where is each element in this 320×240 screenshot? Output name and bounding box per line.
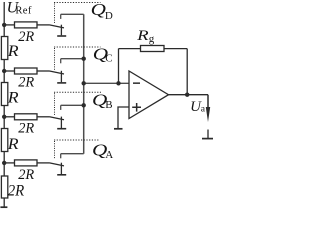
svg-text:C: C — [105, 53, 112, 65]
dashed box QD left — [54, 4, 56, 25]
node dot rail D — [2, 23, 6, 27]
wire 2R to switch QB pole — [37, 116, 50, 118]
wire node D to 2R — [4, 24, 14, 26]
svg-text:R: R — [136, 28, 149, 44]
dashed box QB top — [54, 91, 101, 93]
wire 2R to switch QA pole — [37, 162, 50, 164]
wire QD upper contact to bus — [61, 13, 84, 15]
svg-text:A: A — [105, 149, 113, 161]
dashed box QA top — [54, 139, 99, 141]
node dot bus to op-amp — [82, 81, 86, 85]
op-amp minus sign — [133, 82, 140, 84]
wire feedback top left — [119, 48, 141, 50]
svg-text:2R: 2R — [18, 121, 34, 137]
wire QA upper contact to bus — [61, 153, 84, 155]
op-amp plus sign — [132, 107, 141, 109]
wire node C to 2R — [4, 70, 14, 72]
dashed box QC top — [54, 46, 101, 48]
resistor R (middle, between node C and node B) — [1, 83, 7, 106]
wire bus to op-amp inverting input — [84, 82, 129, 84]
svg-text:R: R — [7, 89, 20, 106]
dashed box QC left — [54, 48, 56, 70]
switch QD lever — [50, 25, 65, 28]
svg-text:a: a — [201, 104, 206, 115]
wire left rail — [3, 2, 5, 207]
svg-text:2R: 2R — [18, 74, 34, 90]
svg-text:R: R — [7, 43, 20, 60]
wire node A to 2R — [4, 162, 14, 164]
arrow Ua (output voltage arrow) — [207, 95, 209, 110]
op-amp triangle — [129, 71, 169, 119]
wire 2R to switch QD pole — [37, 24, 50, 26]
wire QC upper contact to bus — [61, 58, 84, 60]
wire node B to 2R — [4, 116, 14, 118]
node dot bus QB — [82, 103, 86, 107]
resistor 2R (row B horizontal) — [15, 114, 38, 120]
resistor 2R (row A horizontal) — [15, 160, 38, 166]
svg-text:2R: 2R — [18, 29, 34, 45]
node dot rail B — [2, 115, 6, 119]
wire ground stub below Ua arrow — [207, 130, 209, 139]
wire op-amp noninverting corner — [118, 107, 129, 128]
resistor R (lower, between node B and node A) — [1, 129, 7, 152]
node dot bus QC — [82, 57, 86, 61]
switch QA lower contact — [60, 163, 62, 174]
switch QD lower contact — [60, 25, 62, 36]
switch QB upper contact stub — [60, 105, 62, 110]
svg-text:B: B — [105, 99, 112, 111]
svg-text:2R: 2R — [8, 183, 25, 200]
svg-text:g: g — [149, 33, 155, 45]
node dot feedback left — [116, 81, 120, 85]
wire feedback left vertical — [118, 49, 120, 84]
dashed box QD top — [54, 2, 101, 4]
switch QC lower contact — [60, 71, 62, 82]
node dot rail A — [2, 161, 6, 165]
svg-text:Ref: Ref — [15, 5, 31, 16]
wire feedback right vertical — [186, 49, 188, 95]
switch QD upper contact stub — [60, 14, 62, 19]
wire op-amp output — [169, 94, 209, 96]
resistor 2R (row D horizontal) — [15, 22, 38, 28]
dashed box QB left — [54, 93, 56, 116]
ground bottom-left terminal bar — [0, 206, 7, 208]
switch QA upper contact stub — [60, 154, 62, 159]
wire summing bus vertical — [83, 14, 85, 153]
svg-text:2R: 2R — [18, 167, 34, 183]
node dot rail C — [2, 69, 6, 73]
svg-text:D: D — [105, 10, 113, 22]
switch QB lower contact — [60, 117, 62, 128]
ground at noninverting input — [114, 128, 123, 130]
wire feedback top right — [164, 48, 187, 50]
svg-text:Q: Q — [91, 0, 106, 19]
switch QA lever — [50, 163, 65, 166]
switch QC lever — [50, 71, 65, 74]
resistor 2R (row C horizontal) — [15, 68, 38, 74]
switch QC upper contact stub — [60, 59, 62, 64]
wire QB upper contact to bus — [61, 104, 84, 106]
svg-text:R: R — [7, 136, 20, 153]
resistor Rg — [141, 46, 165, 52]
dashed box QA left — [54, 141, 56, 159]
node dot feedback right — [185, 93, 189, 97]
ground at output reference — [202, 138, 214, 140]
switch QB lever — [50, 117, 65, 120]
resistor R (top, between node D and node C) — [1, 37, 7, 60]
wire 2R to switch QC pole — [37, 70, 50, 72]
resistor 2R (bottom termination) — [1, 176, 7, 198]
